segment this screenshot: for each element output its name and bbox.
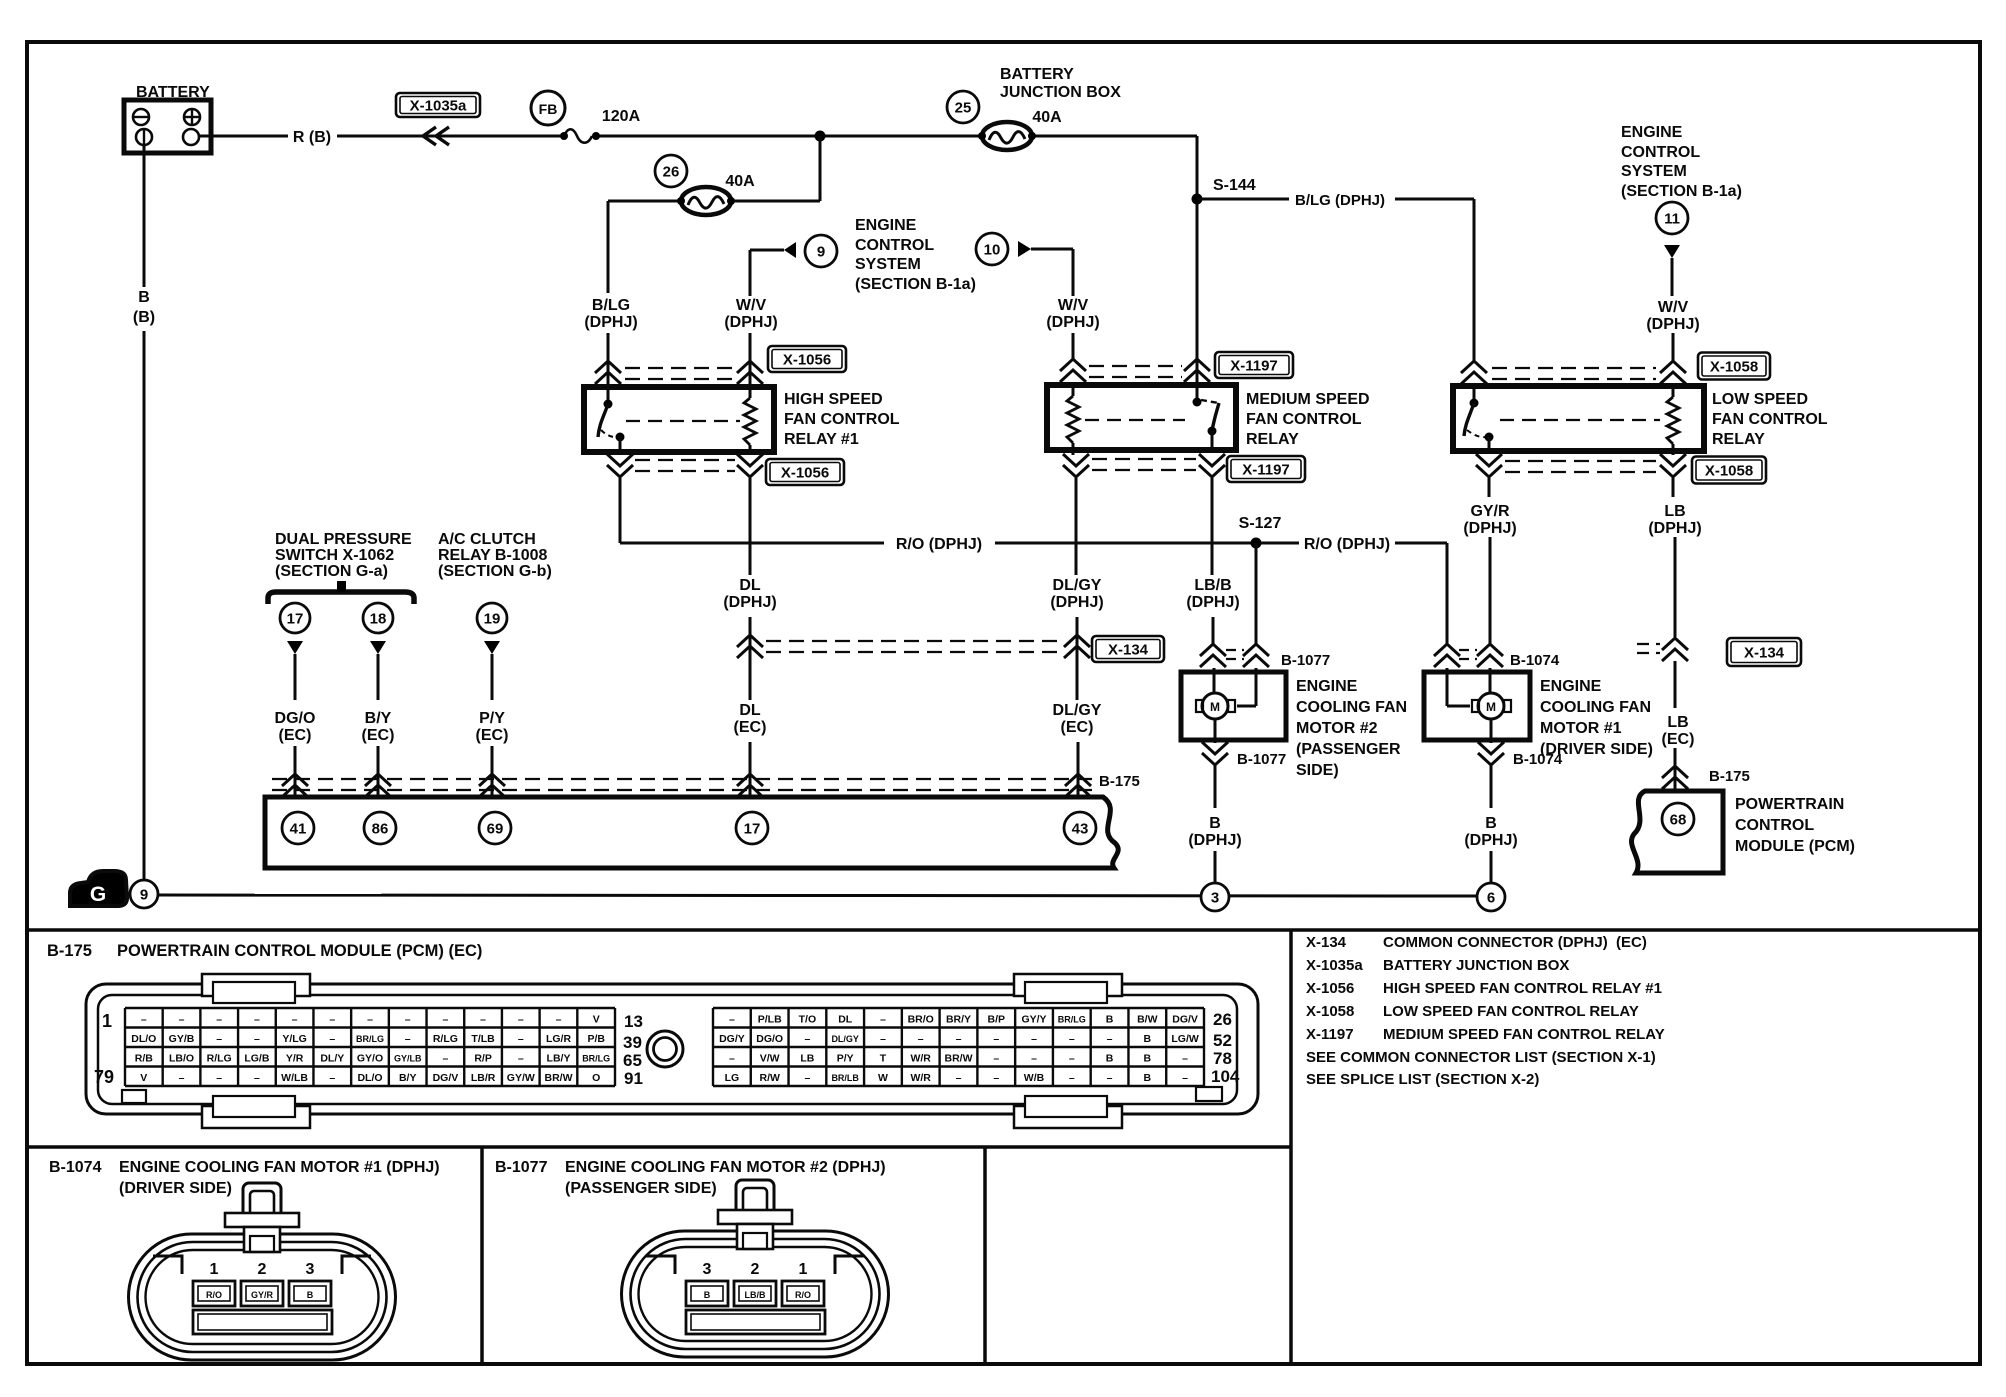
svg-text:X-1197: X-1197 [1230,358,1278,375]
label B-1077 ENGINE COOLING FAN MOTOR #2 [495,1159,886,1197]
svg-text:B-1074: B-1074 [49,1159,102,1176]
PCM pin grid L [125,1008,615,1086]
svg-text:–: – [329,1072,335,1084]
wire DL (DPHJ) from high speed coil [749,478,752,575]
svg-text:M: M [1210,700,1220,714]
svg-text:(DPHJ): (DPHJ) [1186,594,1239,611]
wire DL to PCM pin 17 [749,742,752,797]
connector label X-1056 (top) [768,346,846,372]
svg-text:R/B: R/B [135,1053,154,1065]
svg-text:B: B [1106,1053,1114,1065]
section divider (bottom of PCM table) [27,1145,1291,1149]
svg-text:LG: LG [725,1072,740,1084]
svg-text:RELAY B-1008: RELAY B-1008 [438,547,547,564]
connector X-1058 top chevrons [1461,361,1686,384]
label B-175 POWERTRAIN CONTROL MODULE header [47,942,482,960]
svg-text:–: – [367,1014,373,1026]
svg-text:MEDIUM SPEED: MEDIUM SPEED [1246,391,1370,408]
svg-text:S-127: S-127 [1239,515,1282,532]
connector label X-1197 (top) [1215,352,1293,378]
svg-text:FAN CONTROL: FAN CONTROL [1712,411,1828,428]
svg-text:DL: DL [739,702,761,719]
svg-text:–: – [880,1033,886,1045]
splice S-144 [1192,177,1256,205]
svg-text:DL/GY: DL/GY [831,1034,859,1044]
svg-text:B: B [307,1290,314,1300]
svg-text:(EC): (EC) [734,719,767,736]
svg-text:–: – [729,1014,735,1026]
svg-text:–: – [1107,1072,1113,1084]
svg-text:(EC): (EC) [476,727,509,744]
svg-text:10: 10 [984,241,1001,258]
svg-text:–: – [804,1072,810,1084]
svg-text:X-1197: X-1197 [1306,1026,1354,1043]
svg-text:–: – [993,1072,999,1084]
svg-text:DG/V: DG/V [1172,1014,1198,1026]
svg-text:G: G [90,883,106,906]
svg-text:–: – [254,1014,260,1026]
svg-text:X-1056: X-1056 [1306,980,1354,997]
svg-text:ENGINE COOLING FAN MOTOR #2 (D: ENGINE COOLING FAN MOTOR #2 (DPHJ) [565,1159,886,1176]
connector label X-1058 (bottom) [1692,457,1766,484]
svg-text:–: – [729,1053,735,1065]
wire B (DPHJ) from motor 1 [1490,765,1493,808]
svg-text:FAN CONTROL: FAN CONTROL [784,411,900,428]
divider right of B-1077 [983,1147,987,1364]
svg-text:(DPHJ): (DPHJ) [1188,832,1241,849]
legend list [1306,934,1665,1088]
label MEDIUM SPEED FAN CONTROL RELAY [1246,391,1370,448]
wire LB/B (DPHJ) from medium speed switch [1211,478,1214,575]
divider between B-1074 and B-1077 [480,1147,484,1364]
connector B-1074 chevrons (bottom) [1478,719,1563,768]
label B-1074 ENGINE COOLING FAN MOTOR #1 [49,1159,440,1197]
svg-text:A/C CLUTCH: A/C CLUTCH [438,531,536,548]
connector drawing B-1074 [129,1183,396,1360]
svg-text:R/LG: R/LG [207,1053,232,1065]
ground node 3 [1201,883,1229,911]
svg-text:–: – [956,1072,962,1084]
svg-text:P/Y: P/Y [837,1053,854,1065]
svg-text:BR/LB: BR/LB [831,1073,859,1083]
arrow 19 [477,603,507,700]
svg-text:DL/GY: DL/GY [1053,702,1102,719]
svg-text:DG/O: DG/O [275,710,316,727]
node W/V (DPHJ) label (high speed coil) [724,297,777,331]
svg-text:19: 19 [484,610,501,627]
svg-text:CONTROL: CONTROL [855,237,934,254]
svg-text:BATTERY JUNCTION BOX: BATTERY JUNCTION BOX [1383,957,1569,974]
svg-text:–: – [216,1014,222,1026]
node B (DPHJ) label (motor 1) [1464,815,1517,849]
svg-text:25: 25 [955,99,972,116]
svg-text:COOLING FAN: COOLING FAN [1540,699,1651,716]
svg-text:X-1035a: X-1035a [1306,957,1363,974]
svg-text:–: – [1107,1033,1113,1045]
svg-text:B: B [138,289,150,306]
svg-text:W: W [878,1072,888,1084]
svg-text:(SECTION G-a): (SECTION G-a) [275,563,388,580]
svg-text:79: 79 [94,1067,114,1087]
svg-text:R/O (DPHJ): R/O (DPHJ) [1304,536,1390,553]
svg-text:78: 78 [1213,1049,1232,1068]
wire R/O (DPHJ) bus from high speed relay [620,478,1299,553]
svg-text:B/W: B/W [1137,1014,1158,1026]
svg-text:–: – [442,1053,448,1065]
wire DL through X-134 [749,617,752,700]
svg-text:BR/W: BR/W [945,1053,973,1065]
svg-text:LB: LB [1664,503,1685,520]
svg-text:Y/LG: Y/LG [282,1033,307,1045]
wire LB to PCM 68 [1674,748,1677,791]
svg-text:B: B [1209,815,1221,832]
svg-text:MOTOR #2: MOTOR #2 [1296,720,1378,737]
PCM pin 43 [1064,812,1096,844]
svg-text:M: M [1486,700,1496,714]
svg-text:B/LG: B/LG [592,297,630,314]
svg-text:B: B [1485,815,1497,832]
svg-text:(B): (B) [133,309,155,326]
svg-text:–: – [141,1014,147,1026]
svg-text:68: 68 [1670,811,1687,828]
node B (B) label [133,289,155,326]
node LB (EC) label [1662,714,1695,748]
svg-text:X-1058: X-1058 [1705,463,1753,480]
svg-text:W/B: W/B [1024,1072,1045,1084]
svg-text:SYSTEM: SYSTEM [1621,163,1687,180]
svg-text:B: B [1144,1033,1152,1045]
PCM pin 69 [479,812,511,844]
connector B-1077 chevrons (bottom) [1202,719,1286,768]
label ENGINE COOLING FAN MOTOR #1 [1540,678,1653,758]
svg-text:65: 65 [623,1051,642,1070]
svg-text:(EC): (EC) [362,727,395,744]
connector label X-134 [1092,636,1164,662]
svg-text:MOTOR #1: MOTOR #1 [1540,720,1622,737]
svg-text:B-1077: B-1077 [1237,751,1286,768]
legend box left edge [1289,930,1293,1364]
wire B (DPHJ) from motor 2 [1214,765,1217,808]
svg-text:T/LB: T/LB [471,1033,495,1045]
svg-text:1: 1 [210,1261,219,1278]
svg-text:3: 3 [1211,889,1219,906]
svg-text:BR/W: BR/W [545,1072,573,1084]
svg-text:V: V [140,1072,147,1084]
PCM pin grid R [713,1008,1204,1086]
svg-text:–: – [518,1053,524,1065]
svg-text:MODULE (PCM): MODULE (PCM) [1735,838,1855,855]
arrow 17 [280,603,310,700]
label POWERTRAIN CONTROL MODULE (PCM) [1735,796,1855,855]
svg-text:B/LG (DPHJ): B/LG (DPHJ) [1295,192,1385,209]
svg-text:X-134: X-134 [1108,642,1149,659]
svg-text:11: 11 [1664,210,1680,227]
svg-text:(DPHJ): (DPHJ) [1464,832,1517,849]
svg-text:DL/GY: DL/GY [1053,577,1102,594]
label HIGH SPEED FAN CONTROL RELAY #1 [784,391,900,448]
svg-text:–: – [480,1014,486,1026]
svg-text:B: B [1106,1014,1114,1026]
svg-text:17: 17 [287,610,304,627]
svg-text:SIDE): SIDE) [1296,762,1339,779]
wire R (B) main feed from battery [199,129,1197,146]
node B/Y (EC) label [362,710,395,744]
relay X-1058 low speed fan control relay [1453,386,1704,455]
svg-text:R (B): R (B) [293,129,331,146]
PCM pin index labels [94,1010,1240,1088]
svg-text:X-1197: X-1197 [1242,462,1290,479]
fuse 26 40A [655,155,755,215]
svg-text:–: – [993,1033,999,1045]
svg-text:B-175: B-175 [1709,768,1750,785]
connector B-1077 chevrons (top) [1200,644,1330,669]
svg-text:RELAY: RELAY [1712,431,1765,448]
PCM connector outline [86,984,1258,1114]
label DUAL PRESSURE SWITCH X-1062 [275,531,412,580]
wire GY/R (DPHJ) from low speed switch [1488,478,1491,497]
svg-text:13: 13 [624,1012,643,1031]
ground symbol G [70,871,131,906]
svg-text:W/R: W/R [910,1072,931,1084]
svg-text:POWERTRAIN CONTROL MODULE (PCM: POWERTRAIN CONTROL MODULE (PCM) (EC) [117,942,482,960]
connector label X-134 (LB wire) [1727,638,1801,666]
connector label X-1056 (bottom) [766,459,844,485]
svg-text:FB: FB [539,101,558,117]
svg-text:(EC): (EC) [279,727,312,744]
fuse FB 120A (fusible link) [531,91,641,143]
svg-text:GY/O: GY/O [357,1053,383,1065]
svg-text:R/W: R/W [759,1072,780,1084]
svg-text:W/LB: W/LB [281,1072,308,1084]
svg-text:B/Y: B/Y [399,1072,417,1084]
svg-text:–: – [329,1014,335,1026]
relay X-1056 high speed fan control relay #1 [584,387,774,455]
svg-text:B/P: B/P [988,1014,1006,1026]
svg-text:B/Y: B/Y [365,710,392,727]
node LB (DPHJ) label [1648,503,1701,537]
svg-text:R/LG: R/LG [433,1033,458,1045]
svg-text:LOW SPEED: LOW SPEED [1712,391,1808,408]
svg-text:W/V: W/V [1058,297,1089,314]
svg-text:120A: 120A [602,108,641,125]
node DL/GY (DPHJ) label [1050,577,1103,611]
svg-text:P/B: P/B [587,1033,605,1045]
relay X-1197 medium speed fan control relay [1047,385,1236,455]
PCM pin 41 [282,812,314,844]
node DL (DPHJ) label [723,577,776,611]
node DL/GY (EC) label [1053,702,1102,736]
svg-text:–: – [556,1014,562,1026]
svg-text:X-1056: X-1056 [781,465,829,482]
svg-text:–: – [518,1014,524,1026]
svg-text:LG/B: LG/B [244,1053,269,1065]
svg-text:DG/O: DG/O [756,1033,783,1045]
svg-text:SYSTEM: SYSTEM [855,256,921,273]
svg-text:LB/B: LB/B [745,1290,766,1300]
svg-text:DG/Y: DG/Y [719,1033,745,1045]
svg-text:(DPHJ): (DPHJ) [1648,520,1701,537]
ground bus wire [158,895,1478,896]
svg-text:HIGH SPEED: HIGH SPEED [784,391,883,408]
svg-text:9: 9 [817,243,825,260]
svg-text:(DPHJ): (DPHJ) [1046,314,1099,331]
svg-text:26: 26 [1213,1010,1232,1029]
motor B-1074 engine cooling fan motor #1 [1424,668,1530,740]
svg-text:–: – [216,1033,222,1045]
svg-text:ENGINE COOLING FAN MOTOR #1 (D: ENGINE COOLING FAN MOTOR #1 (DPHJ) [119,1159,440,1176]
svg-text:(DPHJ): (DPHJ) [724,314,777,331]
svg-text:GY/LB: GY/LB [394,1054,422,1064]
svg-text:BR/Y: BR/Y [946,1014,971,1026]
svg-text:B-1077: B-1077 [495,1159,548,1176]
label BATTERY JUNCTION BOX [1000,66,1121,101]
svg-text:(EC): (EC) [1662,731,1695,748]
wire to fuse 26 [608,136,820,201]
svg-text:BR/O: BR/O [908,1014,934,1026]
svg-text:LOW SPEED FAN CONTROL RELAY: LOW SPEED FAN CONTROL RELAY [1383,1003,1639,1020]
node GY/R (DPHJ) label [1463,503,1516,537]
svg-text:X-134: X-134 [1306,934,1347,951]
svg-text:X-1058: X-1058 [1306,1003,1354,1020]
svg-text:41: 41 [290,820,307,837]
svg-text:40A: 40A [1032,109,1062,126]
svg-text:–: – [993,1053,999,1065]
wire DL/GY through X-134 [1076,617,1079,700]
svg-text:LB/Y: LB/Y [547,1053,571,1065]
wire B/Y to PCM pin 86 [377,746,380,797]
svg-text:86: 86 [372,820,389,837]
svg-text:(DPHJ): (DPHJ) [1463,520,1516,537]
svg-text:–: – [254,1033,260,1045]
svg-text:W/V: W/V [1658,299,1689,316]
svg-text:DUAL PRESSURE: DUAL PRESSURE [275,531,412,548]
svg-text:W/R: W/R [910,1053,931,1065]
node DL (EC) label [734,702,767,736]
svg-text:69: 69 [487,820,504,837]
arrow 18 [363,603,393,700]
svg-text:S-144: S-144 [1213,177,1256,194]
svg-text:DL/Y: DL/Y [320,1053,344,1065]
svg-text:LG/W: LG/W [1171,1033,1198,1045]
PCM screw hole [647,1031,683,1067]
svg-text:GY/B: GY/B [169,1033,195,1045]
svg-text:–: – [1182,1053,1188,1065]
svg-text:X-1058: X-1058 [1710,359,1758,376]
PCM pin 86 [364,812,396,844]
svg-text:R/P: R/P [474,1053,492,1065]
PCM B-175 connector strip [265,797,1118,868]
svg-text:MEDIUM SPEED FAN CONTROL RELAY: MEDIUM SPEED FAN CONTROL RELAY [1383,1026,1665,1043]
svg-text:(EC): (EC) [1061,719,1094,736]
node W/V (DPHJ) label (low speed coil) [1646,299,1699,333]
svg-text:P/Y: P/Y [479,710,505,727]
svg-text:B-1074: B-1074 [1513,751,1563,768]
svg-text:52: 52 [1213,1031,1232,1050]
PCM B-175 pin 68 box [1632,791,1723,873]
svg-text:(DPHJ): (DPHJ) [723,594,776,611]
connector X-1058 bottom chevrons [1476,437,1686,477]
connector B-175 chevrons (LB wire) [1662,766,1750,789]
svg-text:(SECTION B-1a): (SECTION B-1a) [855,276,976,293]
svg-text:LB/B: LB/B [1194,577,1231,594]
label ENGINE CONTROL SYSTEM (right) [1621,124,1742,200]
svg-text:ENGINE: ENGINE [1621,124,1683,141]
svg-text:–: – [179,1014,185,1026]
svg-text:–: – [804,1033,810,1045]
svg-text:T: T [880,1053,887,1065]
svg-text:–: – [1069,1072,1075,1084]
svg-text:ENGINE: ENGINE [855,217,917,234]
svg-text:2: 2 [258,1261,267,1278]
svg-text:40A: 40A [725,173,755,190]
svg-text:–: – [179,1072,185,1084]
svg-text:–: – [1031,1053,1037,1065]
svg-text:–: – [956,1033,962,1045]
connector X-134 chevrons (DL / DL-GY) [737,635,1090,658]
svg-text:B: B [704,1290,711,1300]
connector X-1056 top chevrons [595,361,763,384]
arrow 10 to engine control system [976,233,1073,359]
ground node 9 [130,880,158,908]
svg-text:GY/W: GY/W [507,1072,535,1084]
label ENGINE CONTROL SYSTEM (left) [855,217,976,293]
svg-text:104: 104 [1211,1067,1240,1086]
svg-text:–: – [254,1072,260,1084]
label A/C CLUTCH RELAY B-1008 [438,531,552,580]
svg-text:RELAY: RELAY [1246,431,1299,448]
svg-text:COMMON CONNECTOR (DPHJ) (EC): COMMON CONNECTOR (DPHJ) (EC) [1383,934,1647,951]
node B/LG (DPHJ) label (high speed) [584,297,637,331]
connector X-1197 bottom chevrons [1063,431,1225,477]
svg-text:GY/R: GY/R [1470,503,1510,520]
connector B-175 chevrons and dashes [272,773,1140,797]
connector label X-1197 (bottom) [1227,456,1305,482]
svg-text:(PASSENGER: (PASSENGER [1296,741,1401,758]
wire LB/B to fan motor 2 [1212,617,1215,644]
connector B-1074 chevrons (top) [1434,644,1560,669]
wire B/LG (DPHJ) branch to low speed relay [1197,192,1474,361]
wire B (battery ground lead) [143,145,146,287]
svg-text:(SECTION G-b): (SECTION G-b) [438,563,552,580]
svg-text:–: – [880,1014,886,1026]
svg-text:39: 39 [623,1033,642,1052]
PCM pin 17 [736,812,768,844]
wire LB (DPHJ) from low speed coil [1672,478,1675,497]
svg-text:BR/LG: BR/LG [1058,1015,1086,1025]
connector label X-1035a [396,93,480,117]
svg-text:–: – [329,1033,335,1045]
svg-text:–: – [1182,1072,1188,1084]
splice S-127 [1239,515,1282,549]
battery [124,84,211,153]
svg-text:–: – [216,1072,222,1084]
svg-text:–: – [405,1014,411,1026]
bracket over arrows 17 and 18 [268,581,414,604]
node DG/O (EC) label [275,710,316,744]
svg-text:R/O (DPHJ): R/O (DPHJ) [896,536,982,553]
svg-text:BATTERY: BATTERY [1000,66,1074,83]
svg-text:(DPHJ): (DPHJ) [584,314,637,331]
svg-text:B-1074: B-1074 [1510,652,1560,669]
svg-text:–: – [442,1014,448,1026]
svg-text:V/W: V/W [760,1053,780,1065]
svg-text:B: B [1144,1053,1152,1065]
svg-text:LB/R: LB/R [471,1072,496,1084]
svg-text:1: 1 [102,1011,112,1031]
wire LB through X-134 [1674,537,1677,637]
section divider (top of PCM table) [27,928,1980,932]
svg-text:DL: DL [739,577,761,594]
